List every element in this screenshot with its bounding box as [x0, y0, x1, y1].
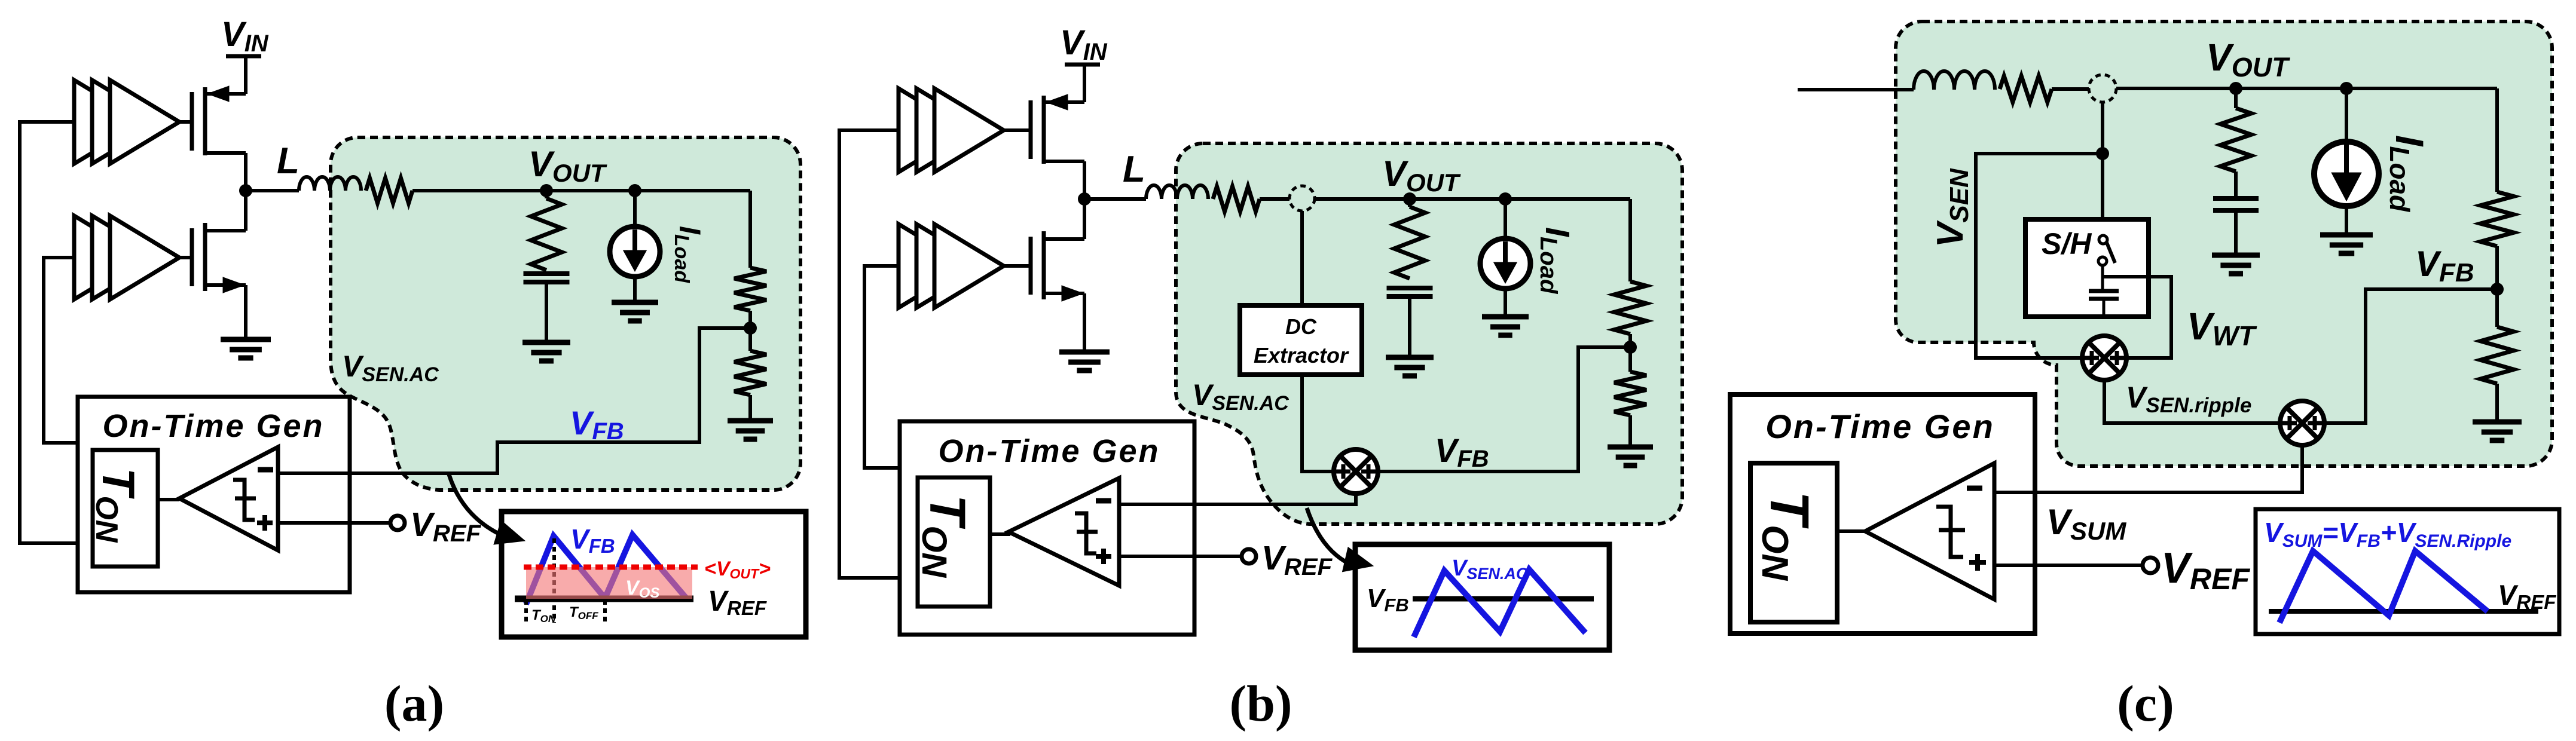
waveform baseline V_REF (c): [2269, 609, 2538, 614]
terminal VREF (c): [2143, 558, 2158, 573]
resistor R2 feedback divider (c): [2480, 327, 2514, 384]
resistor R1 feedback divider (b): [1614, 281, 1646, 334]
svg-text:TON: TON: [915, 495, 976, 578]
ground COUT (b): [1386, 355, 1434, 360]
wire summer output to comparator minus (b): [1117, 494, 1356, 504]
wire COUT to ground (b): [1408, 296, 1411, 357]
transistor MP power PMOS (b): [1029, 100, 1033, 159]
wire NMOS source to ground (b): [1083, 293, 1086, 352]
wire switch node to inductor (a): [246, 189, 299, 192]
wire sense node down to junction (c): [2101, 102, 2104, 154]
wire V_FB from divider to summer 2 (c): [2324, 289, 2497, 423]
waveform inset box (c): [2256, 509, 2559, 634]
svg-text:TON: TON: [89, 468, 143, 543]
node SW switch node (a): [239, 184, 252, 197]
wire R1 to FB node (c): [2495, 246, 2499, 289]
resistor DCR of inductor (b): [1213, 186, 1260, 212]
VIN supply bar (b): [1065, 63, 1100, 67]
waveform inset box (a): [502, 512, 806, 637]
svg-text:VIN: VIN: [1060, 23, 1108, 65]
svg-text:(a): (a): [384, 675, 444, 732]
waveform V_SUM sawtooth (blue) (c): [2279, 551, 2488, 623]
wire current source to ground (c): [2345, 207, 2348, 235]
current source I_Load (b): [1480, 238, 1530, 289]
resistor DCR of inductor (a): [366, 178, 412, 203]
panel (b) sensing network region (green dashed): [1176, 143, 1682, 524]
waveform V_FB triangle wave (blue) (a): [526, 535, 686, 604]
wire VOUT rail corner to divider (b): [1628, 199, 1632, 281]
panel (a) sensing network region (green dashed): [331, 137, 800, 490]
comparator U1 (a): [179, 447, 278, 550]
wire DC extractor output to summer (b): [1302, 375, 1334, 471]
wire PMOS drain to switch node (b): [1083, 161, 1086, 199]
dashed sense node circle (c): [2089, 75, 2116, 102]
comparator plus sign (b): [1096, 554, 1111, 559]
svg-text:L: L: [1123, 149, 1145, 190]
wire DCR to sense node (b): [1260, 197, 1289, 201]
transistor MN power NMOS (b): [1029, 237, 1033, 295]
terminal VREF (a): [390, 516, 405, 530]
red dashed line mean VOUT (a): [524, 565, 698, 570]
wire COUT to ground (c): [2234, 210, 2238, 255]
wire comparator output to TON (a): [158, 498, 179, 501]
waveform baseline V_FB (b): [1413, 596, 1594, 602]
comparator plus sign (a): [257, 520, 273, 525]
svg-text:On-Time Gen: On-Time Gen: [102, 408, 324, 444]
node V_OUT (a): [540, 184, 553, 197]
svg-text:VREF: VREF: [2161, 544, 2250, 596]
T_ON block (b): [918, 477, 990, 607]
wire plus input to VREF (c): [1994, 564, 2143, 567]
low-side gate driver buffers (a): [74, 216, 143, 299]
wire input to inductor (c): [1798, 88, 1914, 91]
VIN supply bar (a): [226, 54, 261, 59]
svg-text:VIN: VIN: [221, 15, 269, 57]
wire lower driver input rail (a): [44, 258, 78, 443]
hold capacitor (c): [2089, 289, 2119, 293]
wire sense node to VOUT rail (b): [1315, 197, 1630, 201]
wire PMOS source to VIN (a): [244, 56, 247, 94]
wire R2 to ground (c): [2495, 384, 2499, 422]
node I_Load tap (c): [2340, 82, 2353, 95]
wire comparator output to TON (b): [990, 532, 1010, 536]
node FB divider mid (a): [744, 321, 757, 335]
wire switch to hold cap (c): [2101, 265, 2104, 291]
comparator minus sign (a): [258, 467, 273, 473]
dashed marker t0 (a): [524, 600, 528, 623]
wire FB to R2 (b): [1628, 347, 1632, 372]
svg-text:L: L: [277, 140, 300, 182]
comparator hysteresis symbol (c): [1936, 507, 1965, 557]
On-Time Gen block (b): [900, 421, 1194, 635]
ground I_Load (b): [1482, 314, 1529, 320]
DC Extractor block (b): [1240, 305, 1362, 375]
wire VOUT rail corner to divider (a): [748, 191, 752, 268]
wire gate lead NMOS (a): [179, 256, 192, 259]
capacitor COUT (a): [524, 271, 570, 276]
resistor DCR of inductor (c): [2000, 76, 2052, 102]
svg-text:TON: TON: [1754, 491, 1820, 581]
svg-text:DC: DC: [1285, 314, 1317, 339]
node V_FB divider mid (c): [2491, 283, 2504, 296]
node sense junction (c): [2096, 147, 2109, 160]
comparator plus sign (c): [1969, 560, 1986, 565]
wire VOUT rail corner to divider (c): [2495, 88, 2499, 192]
wire FB to R2 (a): [748, 328, 752, 351]
node FB divider mid (b): [1624, 341, 1637, 354]
sampling switch (c): [2099, 235, 2107, 244]
wire lower driver input rail (b): [864, 266, 900, 468]
T_ON block (a): [93, 450, 158, 567]
waveform baseline V_REF (a): [515, 596, 693, 602]
node V_OUT (b): [1403, 192, 1416, 206]
resistor R1 feedback divider (c): [2480, 192, 2514, 246]
V_OS offset shaded region (pink) (a): [526, 567, 692, 599]
comparator minus sign (c): [1967, 486, 1982, 491]
ground I_Load (c): [2320, 232, 2373, 238]
wire switch node to NMOS drain (b): [1083, 199, 1086, 239]
wire sense node to VOUT rail (c): [2116, 87, 2497, 90]
capacitor COUT (b): [1387, 286, 1433, 290]
dashed marker t2 (a): [603, 600, 607, 623]
comparator hysteresis symbol (a): [233, 480, 256, 520]
waveform inset box (b): [1355, 544, 1609, 650]
wire gate lead PMOS (b): [1004, 128, 1031, 132]
svg-text:VSUM: VSUM: [2046, 502, 2126, 545]
S/H block (c): [2025, 219, 2149, 317]
current source I_Load (c): [2314, 142, 2379, 206]
high-side gate driver buffers (a): [74, 80, 143, 164]
dashed sense node circle (b): [1289, 186, 1315, 211]
comparator U1 (b): [1009, 478, 1119, 586]
inductor L (b): [1146, 185, 1208, 199]
resistor ESR of output cap (c): [2234, 88, 2238, 108]
ground divider (c): [2473, 420, 2522, 425]
wire switch node to inductor (b): [1084, 197, 1146, 201]
wire hold cap to block bottom (c): [2103, 299, 2106, 317]
resistor R1 feedback divider (a): [734, 268, 766, 311]
wire plus input to VREF (a): [278, 521, 390, 525]
resistor ESR of output cap (a): [545, 191, 548, 198]
wire FB to R2 (c): [2495, 289, 2499, 327]
wire upper driver input rail (b): [839, 130, 900, 578]
On-Time Gen block (c): [1730, 394, 2035, 633]
wire COUT to ground (a): [545, 282, 548, 342]
node SW switch node (b): [1078, 192, 1091, 206]
svg-text:(b): (b): [1229, 675, 1292, 732]
inductor L (a): [299, 177, 361, 191]
wire V_FB from divider to summer (b): [1378, 347, 1630, 471]
summing node 1 (c): [2082, 336, 2126, 380]
wire summer2 output V_SUM to comparator minus (c): [1992, 445, 2302, 492]
high-side gate driver buffers (b): [899, 88, 968, 172]
wire upper driver input rail (a): [20, 122, 78, 543]
wire R2 to ground (a): [748, 395, 752, 421]
wire DC extractor input from sense node (b): [1300, 211, 1304, 307]
wire switch node to NMOS drain (a): [244, 191, 247, 231]
terminal VREF (b): [1242, 549, 1256, 564]
ground NMOS source (a): [221, 337, 271, 342]
wire R1 to FB node (a): [748, 311, 752, 328]
transistor MN power NMOS (a): [190, 228, 194, 286]
ground COUT (c): [2212, 253, 2260, 258]
On-Time Gen block (a): [78, 397, 350, 592]
wire current source to ground (b): [1504, 290, 1507, 317]
waveform V_SEN.AC triangle wave (blue) (b): [1414, 569, 1585, 637]
ground NMOS source (b): [1059, 350, 1110, 355]
T_ON block (c): [1750, 463, 1837, 622]
low-side gate driver buffers (b): [899, 224, 968, 308]
wire VOUT to current source (c): [2345, 88, 2348, 141]
comparator U1 (c): [1865, 463, 1994, 599]
svg-text:Extractor: Extractor: [1254, 343, 1349, 368]
svg-text:S/H: S/H: [2042, 227, 2092, 261]
wire current source to ground (a): [633, 278, 637, 302]
wire junction to S/H switch (c): [2101, 154, 2104, 235]
wire PMOS drain to switch node (a): [244, 153, 247, 191]
node I_Load tap (a): [628, 184, 641, 197]
wire gate lead NMOS (b): [1004, 264, 1031, 268]
resistor R2 feedback divider (b): [1614, 372, 1646, 415]
transistor MP power PMOS (a): [190, 92, 194, 151]
wire gate lead PMOS (a): [179, 120, 192, 124]
svg-text:On-Time Gen: On-Time Gen: [938, 433, 1160, 469]
wire output rail to VOUT (a): [412, 189, 750, 192]
ground I_Load (a): [612, 300, 658, 305]
wire V_WT S/H output to summer 1 (c): [2104, 277, 2171, 358]
wire R2 to ground (b): [1628, 415, 1632, 447]
ground divider (a): [728, 418, 773, 424]
wire VOUT to current source (a): [633, 191, 637, 227]
summing node 2 (c): [2280, 401, 2324, 445]
wire comparator output to TON (c): [1837, 529, 1868, 533]
wire PMOS source to VIN (b): [1083, 65, 1086, 102]
capacitor COUT (c): [2213, 196, 2259, 201]
wire NMOS source to ground (a): [244, 285, 247, 339]
dashed marker peak (a): [552, 538, 556, 623]
wire R1 to FB node (b): [1628, 334, 1632, 347]
svg-text:(c): (c): [2117, 675, 2174, 732]
svg-text:VREF: VREF: [1261, 539, 1333, 580]
comparator hysteresis symbol (b): [1075, 513, 1098, 553]
wire V_SEN to summer 1 (c): [1976, 154, 2103, 358]
panel (c) sensing network region (green dashed): [1896, 22, 2552, 466]
ground divider (b): [1608, 445, 1653, 450]
wire DCR to sense node (c): [2052, 87, 2089, 91]
current source I_Load (a): [610, 226, 660, 277]
wire VOUT to current source (b): [1504, 199, 1507, 238]
summing node (b): [1334, 449, 1378, 494]
ground COUT (a): [522, 340, 570, 345]
curved arrow to waveform inset (a): [449, 474, 500, 534]
node I_Load tap (b): [1499, 192, 1512, 206]
curved arrow to waveform inset (b): [1307, 508, 1350, 564]
wire summer1 output V_SEN.ripple to summer 2 (c): [2104, 380, 2281, 423]
wire V_FB feedback path to comparator (a): [280, 328, 750, 473]
comparator minus sign (b): [1096, 498, 1111, 504]
inductor L (c): [1914, 71, 1995, 90]
resistor R2 feedback divider (a): [734, 351, 766, 395]
node V_OUT (c): [2229, 82, 2242, 95]
resistor ESR of output cap (b): [1408, 199, 1411, 207]
svg-text:On-Time Gen: On-Time Gen: [1765, 408, 1995, 445]
wire plus input to VREF (b): [1119, 555, 1242, 558]
